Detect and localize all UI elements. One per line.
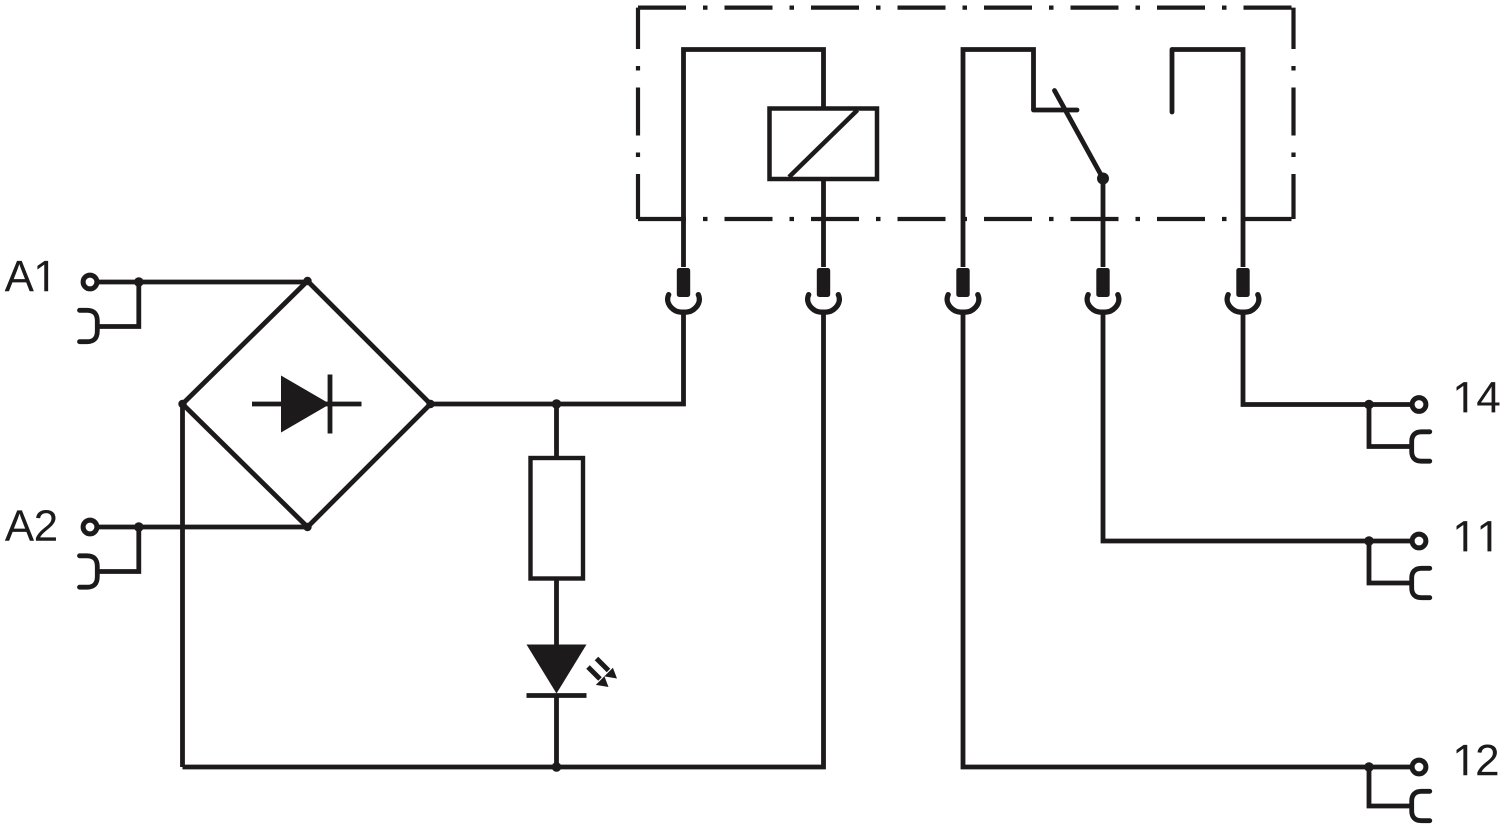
terminal 12 screw circle bbox=[1412, 760, 1426, 774]
bridge rectifier diamond bbox=[183, 281, 431, 527]
wire: DC- bottom rail up to plug 2 bbox=[183, 313, 824, 768]
plug-in connection 5 (contact 14) bbox=[1227, 268, 1259, 312]
11 clamp hook bbox=[1412, 568, 1430, 597]
wire: junction to 12 screw circle bbox=[1369, 765, 1412, 770]
relay coil K1 bbox=[770, 109, 878, 180]
junction 14 bbox=[1364, 400, 1374, 410]
wire: bridge left vertex down to DC- rail bbox=[180, 404, 185, 767]
wire: common contact plug 3 down and right to terminal 12 bbox=[963, 313, 1369, 768]
junction 11 bbox=[1364, 536, 1374, 546]
wire: NO plug 5 down and right to terminal 14 bbox=[1243, 313, 1369, 405]
contact pivot junction bbox=[1097, 173, 1109, 185]
LED D1 bbox=[527, 645, 618, 696]
wire: contact common riser bbox=[963, 50, 1034, 268]
A1 clamp hook bbox=[80, 310, 98, 341]
relay enclosure dash-dot boundary bbox=[638, 8, 1294, 219]
terminal 14 label bbox=[1457, 382, 1500, 412]
plug-in connection 3 (common 12) bbox=[947, 268, 979, 312]
wire: resistor to LED bbox=[554, 579, 559, 647]
junction A2 bbox=[134, 522, 144, 532]
switch blade (changeover contact) bbox=[1055, 91, 1104, 179]
12 clamp drop wire bbox=[1369, 767, 1410, 806]
12 clamp hook bbox=[1412, 791, 1430, 820]
diode symbol inside bridge bbox=[252, 375, 362, 434]
junction A1 bbox=[134, 277, 144, 287]
terminal A1 label bbox=[5, 261, 48, 291]
junction: resistor tap on DC+ rail bbox=[552, 399, 562, 409]
wire: relay coil left lead (pin up, across, down to coil) bbox=[684, 50, 824, 268]
terminal 11 screw circle bbox=[1412, 534, 1426, 548]
wire: NC stub bbox=[1170, 50, 1175, 113]
11 clamp drop wire bbox=[1369, 541, 1410, 583]
wire: contact plug 4 down and right to terminal 11 bbox=[1103, 313, 1369, 542]
wire: A2 circle to junction bbox=[97, 525, 139, 530]
A1 clamp drop wire bbox=[99, 282, 139, 327]
plug-in connection 2 (coil B lead) bbox=[808, 268, 840, 312]
terminal A1 screw circle bbox=[83, 275, 97, 289]
junction 12 bbox=[1364, 762, 1374, 772]
terminal 12 label bbox=[1457, 744, 1498, 775]
14 clamp drop wire bbox=[1369, 405, 1410, 447]
terminal 11 label bbox=[1457, 521, 1492, 551]
resistor R1 bbox=[531, 458, 584, 579]
wire: contact pivot down to pin bbox=[1101, 179, 1106, 268]
wire: NO branch bbox=[1172, 50, 1243, 268]
plug-in connection 1 (coil A lead) bbox=[668, 268, 700, 312]
terminal 14 screw circle bbox=[1412, 398, 1426, 412]
wire: junction down to resistor bbox=[554, 404, 559, 458]
terminal A2 screw circle bbox=[83, 520, 97, 534]
wire: junction to 14 screw circle bbox=[1369, 402, 1412, 407]
wire: A1 circle to junction bbox=[97, 280, 139, 285]
contact fixed terminal bar bbox=[1034, 108, 1078, 113]
wire: junction to 11 screw circle bbox=[1369, 539, 1412, 544]
A2 clamp hook bbox=[80, 556, 98, 587]
plug-in connection 4 (contact 11) bbox=[1087, 268, 1119, 312]
terminal A2 label bbox=[5, 510, 56, 541]
14 clamp hook bbox=[1412, 432, 1430, 461]
bridge vertex dots bbox=[178, 277, 434, 531]
wire: relay coil bottom lead bbox=[821, 179, 826, 267]
A2 clamp drop wire bbox=[99, 527, 139, 572]
wire: A2 junction to bridge bottom vertex bbox=[139, 525, 308, 530]
wire: DC+ rail (bridge right vertex to plug 1) bbox=[431, 313, 684, 405]
wire: LED to DC- rail bbox=[554, 694, 559, 767]
wire: A1 junction to bridge top vertex bbox=[139, 280, 308, 285]
junction: LED branch on DC- rail bbox=[552, 762, 562, 772]
